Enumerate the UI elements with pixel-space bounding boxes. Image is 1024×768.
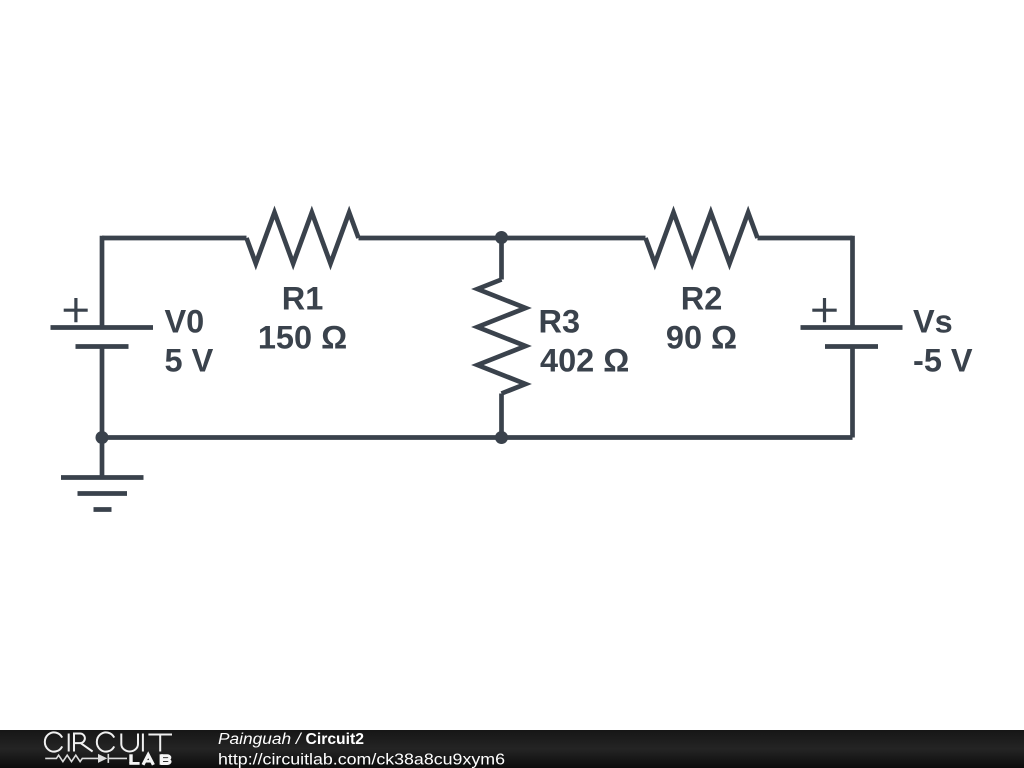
wire top-right vertical rail into Vs <box>850 236 855 328</box>
wire top-left vertical rail into V0 <box>100 236 105 328</box>
ground bar 3 <box>94 507 112 512</box>
voltage source V0 plus sign <box>64 298 88 322</box>
svg-text:Painguah / Circuit2: Painguah / Circuit2 <box>218 731 364 748</box>
resistor R1 <box>247 213 359 264</box>
svg-text:Vs: Vs <box>913 304 953 340</box>
svg-text:R3: R3 <box>539 304 581 340</box>
wire R2 to top-right corner <box>758 236 853 241</box>
svg-text:R2: R2 <box>681 281 723 317</box>
svg-text:5 V: 5 V <box>165 343 214 379</box>
ground bar 2 <box>78 491 128 496</box>
voltage source Vs top plate <box>801 325 903 330</box>
svg-text:V0: V0 <box>165 304 205 340</box>
svg-text:-5 V: -5 V <box>913 343 973 379</box>
svg-text:http://circuitlab.com/ck38a8cu: http://circuitlab.com/ck38a8cu9xym6 <box>218 752 505 768</box>
wire R1 to node A <box>359 236 502 241</box>
wire ground lead <box>100 438 105 478</box>
wire top-left horizontal from V0 to R1 <box>102 236 247 241</box>
voltage source Vs bottom plate <box>825 344 878 349</box>
svg-text:402 Ω: 402 Ω <box>540 343 629 379</box>
wire V0 to bottom-left node <box>100 347 105 438</box>
ground bar 1 <box>61 475 144 480</box>
wire Vs to bottom-right corner <box>850 347 855 438</box>
wire node A to R2 <box>502 236 646 241</box>
resistor R3 <box>478 280 526 394</box>
node A junction dot (top of R3) <box>495 231 508 244</box>
voltage source Vs plus sign <box>812 298 836 322</box>
CircuitLab logo diode triangle <box>98 754 107 763</box>
junction dot bottom of R3 <box>495 431 508 444</box>
junction dot bottom-left (ground node) <box>96 431 109 444</box>
CircuitLab logo schematic line with resistor and diode <box>45 754 127 763</box>
svg-text:90 Ω: 90 Ω <box>666 320 737 356</box>
svg-text:R1: R1 <box>282 281 324 317</box>
footer bar <box>0 730 1024 768</box>
wire R3 top lead <box>499 238 504 280</box>
svg-text:150 Ω: 150 Ω <box>258 320 347 356</box>
voltage source V0 bottom plate <box>76 344 129 349</box>
wire R3 bottom lead <box>499 394 504 438</box>
wire bottom horizontal <box>102 435 853 440</box>
CircuitLab logo LAB letters <box>129 754 170 765</box>
voltage source V0 top plate <box>51 325 154 330</box>
CircuitLab logo wordmark CIRCUIT <box>45 732 172 751</box>
resistor R2 <box>646 213 758 264</box>
